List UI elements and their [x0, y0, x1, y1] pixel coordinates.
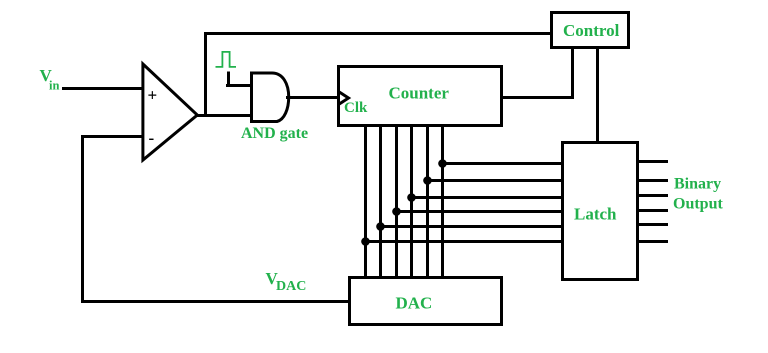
wire Vin input	[62, 87, 144, 90]
tap wire b3 to Latch	[412, 196, 565, 199]
wire feedback bottom horizontal	[81, 300, 351, 303]
output wire q4	[636, 179, 668, 182]
junction dot b2	[392, 207, 401, 216]
tap wire b0 to Latch	[366, 240, 565, 243]
wire Counter to Control horizontal	[500, 96, 574, 99]
svg-text:Output: Output	[673, 196, 723, 213]
svg-text:Counter: Counter	[389, 84, 450, 103]
clock pulse symbol	[216, 52, 237, 67]
wire comparator output	[195, 114, 253, 117]
output wire q1	[636, 223, 668, 226]
junction dot b4	[423, 176, 432, 185]
output wire q2	[636, 209, 668, 212]
bus wire b2 vertical	[395, 125, 398, 278]
bus wire b4 vertical	[426, 125, 429, 278]
Control box	[552, 13, 629, 48]
svg-text:Latch: Latch	[574, 205, 617, 224]
Clk chevron	[339, 92, 349, 105]
svg-text:in: in	[49, 79, 59, 93]
bus wire b0 vertical	[364, 125, 367, 278]
wire inverting input	[81, 135, 144, 138]
tap wire b4 to Latch	[428, 179, 565, 182]
output wire q3	[636, 194, 668, 197]
svg-text:-: -	[149, 129, 155, 148]
tap wire b1 to Latch	[381, 225, 565, 228]
bus wire b3 vertical	[410, 125, 413, 278]
wire top rail to Control	[204, 32, 551, 35]
wire riser to top rail	[204, 32, 207, 117]
junction dot b0	[361, 237, 370, 246]
junction dot b3	[407, 193, 416, 202]
svg-text:+: +	[148, 86, 158, 105]
output wire q5	[636, 160, 668, 163]
Latch box	[563, 143, 638, 280]
wire Counter to Control vertical	[571, 47, 574, 99]
svg-text:DAC: DAC	[396, 294, 433, 313]
DAC box	[350, 278, 502, 325]
tap wire b2 to Latch	[397, 210, 565, 213]
bus wire b5 vertical	[441, 125, 444, 278]
output wire q0	[636, 240, 668, 243]
svg-text:Control: Control	[563, 21, 620, 40]
junction dot b5	[438, 159, 447, 168]
bus wire b1 vertical	[379, 125, 382, 278]
svg-text:Binary: Binary	[674, 176, 721, 193]
AND gate U2	[252, 73, 289, 122]
wire AND output to Counter	[286, 96, 340, 99]
Counter box	[339, 67, 502, 126]
wire Control to Latch	[596, 47, 599, 143]
svg-text:AND gate: AND gate	[241, 125, 308, 142]
junction dot b1	[376, 222, 385, 231]
op-amp comparator U1	[143, 64, 197, 160]
wire pulse to AND gate horizontal	[226, 84, 253, 87]
svg-text:Clk: Clk	[344, 100, 368, 116]
tap wire b5 to Latch	[443, 162, 565, 165]
wire feedback vertical	[81, 135, 84, 303]
wire pulse to AND gate vertical	[227, 72, 230, 88]
svg-text:DAC: DAC	[276, 279, 306, 294]
